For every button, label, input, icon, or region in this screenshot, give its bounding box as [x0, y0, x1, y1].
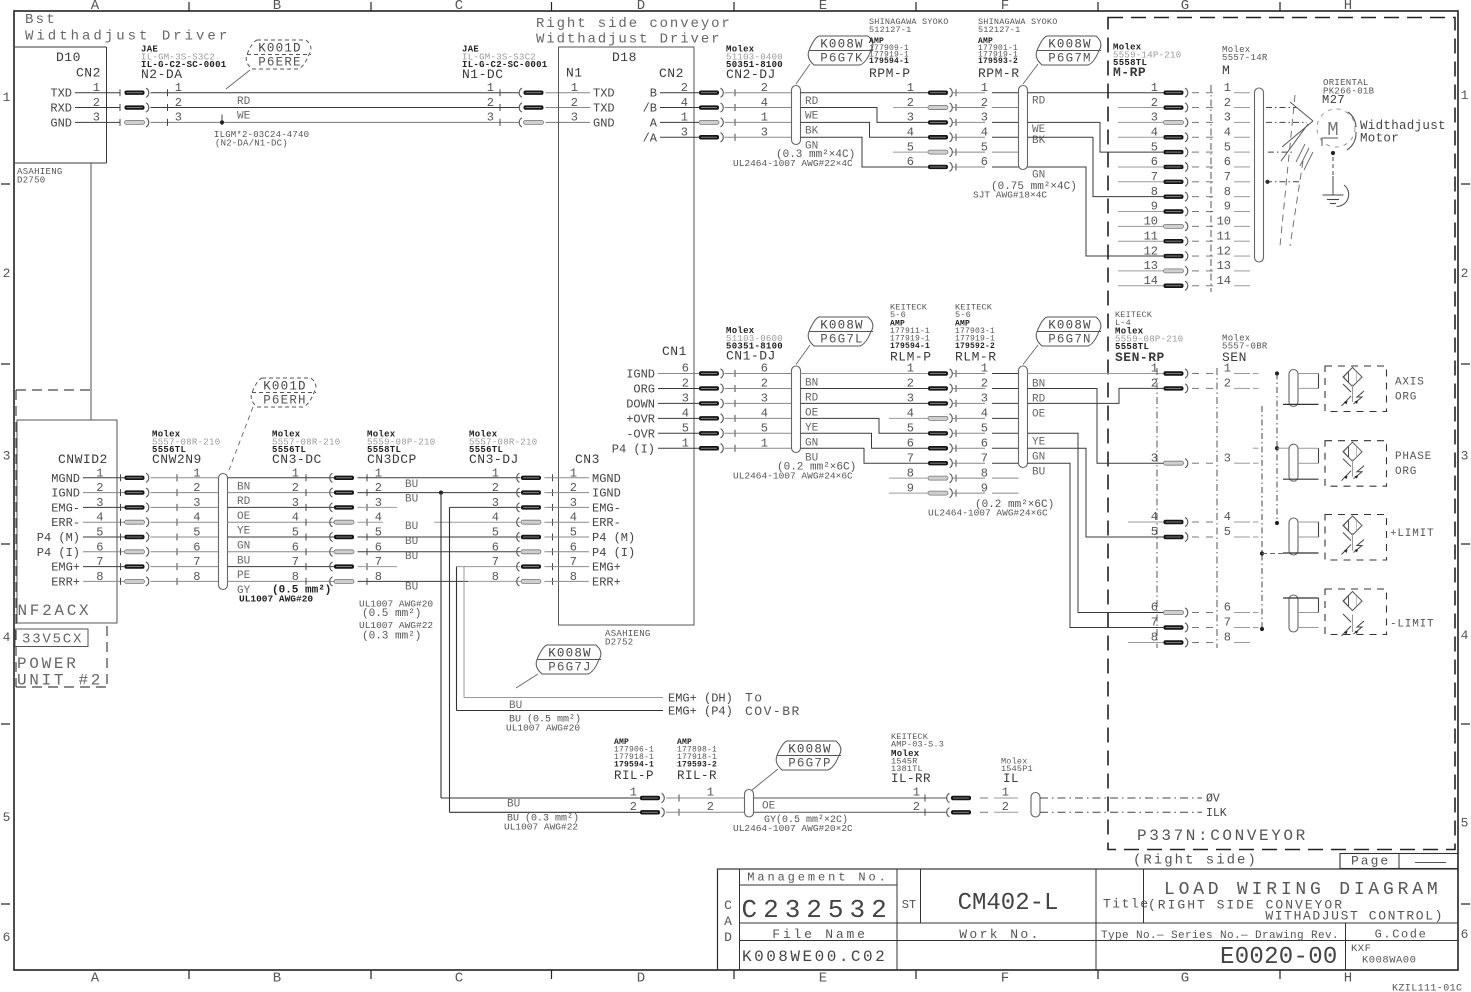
- svg-text:YE: YE: [1032, 437, 1046, 449]
- page cell: [1340, 854, 1458, 869]
- svg-text:File Name: File Name: [772, 927, 867, 942]
- svg-text:4: 4: [682, 407, 689, 421]
- svg-text:POWER: POWER: [17, 655, 79, 673]
- dash-dot leads to 0V ILK: [1040, 793, 1227, 821]
- svg-text:E: E: [819, 971, 827, 987]
- svg-text:CM402-L: CM402-L: [958, 890, 1059, 917]
- svg-text:K008W: K008W: [1048, 319, 1092, 333]
- wires RIL-R to IL-RR: [754, 798, 948, 812]
- wires CNW2N9 to CN3-DC: [228, 474, 338, 585]
- wire colors BN RD OE YE GN BU of cable CN1-DJ to RLM-P: [805, 378, 819, 465]
- svg-text:K001D: K001D: [263, 380, 307, 394]
- connector CN2 of D10 pins TXD RXD GND: [50, 81, 120, 130]
- svg-text:4: 4: [193, 511, 200, 525]
- svg-text:ST: ST: [902, 898, 916, 912]
- svg-text:IGND: IGND: [592, 487, 621, 501]
- splice joints CN2-DJ: [699, 81, 792, 142]
- sensor AXIS ORG: [1253, 366, 1425, 412]
- svg-text:OE: OE: [1032, 409, 1046, 421]
- svg-text:3: 3: [93, 111, 100, 125]
- svg-text:1: 1: [1224, 81, 1231, 95]
- svg-text:BN: BN: [237, 481, 250, 493]
- svg-text:Bst: Bst: [25, 12, 57, 28]
- svg-text:8: 8: [492, 570, 499, 584]
- svg-text:2: 2: [761, 377, 768, 391]
- title Right side conveyor Widthadjust Driver: [536, 16, 732, 48]
- svg-text:1: 1: [571, 81, 578, 95]
- label stack KEITECK AMP RLM-P: [890, 303, 932, 365]
- svg-text:/A: /A: [643, 131, 658, 145]
- svg-text:9: 9: [1224, 200, 1231, 214]
- svg-text:UL1007 AWG#20: UL1007 AWG#20: [506, 723, 580, 734]
- svg-text:ORG: ORG: [633, 382, 655, 396]
- svg-text:Title: Title: [1103, 897, 1150, 912]
- ground symbol of motor: [1323, 151, 1349, 207]
- svg-text:1: 1: [3, 90, 11, 105]
- svg-text:14: 14: [1144, 274, 1158, 288]
- svg-text:6: 6: [96, 540, 103, 554]
- svg-text:4: 4: [761, 96, 768, 110]
- svg-text:AXIS: AXIS: [1395, 377, 1425, 389]
- svg-text:2: 2: [175, 96, 182, 110]
- svg-text:13: 13: [1217, 259, 1231, 273]
- svg-text:2: 2: [1002, 800, 1009, 814]
- svg-text:BN: BN: [805, 378, 818, 390]
- svg-text:1: 1: [761, 111, 768, 125]
- svg-text:G: G: [1181, 0, 1189, 14]
- svg-text:4: 4: [1461, 628, 1469, 643]
- svg-text:5: 5: [1224, 525, 1231, 539]
- connector RIL-R pin numbers: [666, 786, 744, 814]
- svg-text:M27: M27: [1322, 93, 1345, 107]
- svg-text:12: 12: [1144, 244, 1158, 258]
- svg-text:7: 7: [193, 555, 200, 569]
- connector RLM-R pin numbers: [981, 362, 1019, 496]
- svg-text:+OVR: +OVR: [626, 412, 655, 426]
- svg-text:BU: BU: [405, 479, 418, 491]
- label stack Molex CN3-DJ: [469, 430, 537, 468]
- connector SEN-RP 8 pins with splices: [1151, 362, 1213, 647]
- connector CN3DCP pin numbers: [375, 466, 382, 584]
- svg-text:4: 4: [1224, 510, 1231, 524]
- svg-text:3: 3: [907, 111, 914, 125]
- svg-text:EMG+: EMG+: [592, 561, 621, 575]
- svg-text:H: H: [1344, 0, 1352, 14]
- svg-text:5: 5: [3, 810, 11, 825]
- wires RLM-R to SEN-RP: [1028, 374, 1164, 643]
- svg-text:9: 9: [1151, 200, 1158, 214]
- svg-text:2: 2: [981, 96, 988, 110]
- svg-text:P4 (I): P4 (I): [37, 546, 80, 560]
- svg-text:PHASE: PHASE: [1395, 451, 1432, 463]
- svg-text:P4 (I): P4 (I): [612, 442, 655, 456]
- svg-text:-OVR: -OVR: [626, 427, 655, 441]
- svg-text:7: 7: [292, 555, 299, 569]
- svg-text:OE: OE: [762, 801, 776, 813]
- connector SEN 8 pins: [1224, 362, 1250, 645]
- svg-text:2: 2: [707, 800, 714, 814]
- svg-text:+LIMIT: +LIMIT: [1390, 528, 1434, 540]
- svg-text:5: 5: [96, 526, 103, 540]
- svg-text:5: 5: [981, 422, 988, 436]
- svg-text:5-6: 5-6: [955, 310, 971, 320]
- label stack Molex CN2-DJ: [726, 45, 783, 83]
- svg-text:M: M: [1222, 63, 1230, 78]
- label stack Molex M-RP: [1113, 43, 1181, 81]
- svg-text:1: 1: [682, 436, 689, 450]
- svg-text:5: 5: [682, 422, 689, 436]
- svg-text:1: 1: [1224, 362, 1231, 376]
- sensor -LIMIT: [1253, 589, 1434, 636]
- svg-text:IL-RR: IL-RR: [891, 772, 931, 786]
- svg-text:CN1-DJ: CN1-DJ: [726, 349, 776, 364]
- svg-text:4: 4: [96, 511, 103, 525]
- svg-text:(N2-DA/N1-DC): (N2-DA/N1-DC): [215, 139, 288, 149]
- wire EMG+ DH to COV-BR: [464, 691, 764, 713]
- svg-text:COV-BR: COV-BR: [745, 704, 801, 719]
- svg-text:RLM-R: RLM-R: [955, 350, 997, 365]
- svg-text:6: 6: [907, 155, 914, 169]
- svg-text:EMG+ (DH): EMG+ (DH): [668, 692, 733, 706]
- sensor common dash-dot bus: [1260, 371, 1289, 631]
- cable note ILGM*2-03C24-4740 junction: [214, 115, 309, 149]
- svg-text:CN2: CN2: [659, 66, 684, 81]
- splice joints N2-DA: [125, 88, 149, 127]
- svg-text:6: 6: [682, 362, 689, 376]
- svg-text:N1: N1: [566, 66, 583, 81]
- svg-text:1: 1: [292, 466, 299, 480]
- box D10 Bst driver unit: [15, 47, 107, 186]
- connector RPM-R pin numbers: [981, 81, 1019, 169]
- connector RLM-P pin numbers and splices: [907, 362, 985, 498]
- svg-text:2: 2: [681, 81, 688, 95]
- svg-text:3: 3: [1461, 449, 1469, 464]
- svg-text:Right side conveyor: Right side conveyor: [536, 16, 732, 32]
- svg-text:H: H: [1344, 971, 1352, 987]
- svg-text:8: 8: [1151, 185, 1158, 199]
- svg-text:EMG-: EMG-: [51, 501, 80, 515]
- svg-text:BU: BU: [237, 555, 250, 567]
- title Bst Widthadjust Driver: [25, 12, 230, 45]
- svg-text:OE: OE: [237, 511, 251, 523]
- svg-text:179594-1: 179594-1: [869, 57, 909, 66]
- svg-text:CN3: CN3: [575, 452, 600, 467]
- motor M27 widthadjust motor: [1317, 109, 1446, 150]
- svg-text:BU: BU: [405, 536, 418, 548]
- svg-text:A: A: [91, 0, 100, 14]
- svg-text:8: 8: [1224, 631, 1231, 645]
- cable note 0.2mm x6C UL2464 right: [928, 499, 1054, 519]
- svg-text:2: 2: [571, 96, 578, 110]
- svg-text:Widthadjust Driver: Widthadjust Driver: [536, 32, 721, 48]
- wires CN3DCP to CN3-DJ: [358, 478, 521, 582]
- label stack KEITECK AMP RLM-R: [955, 303, 997, 365]
- svg-text:EMG+ (P4): EMG+ (P4): [668, 705, 733, 719]
- wire colors RD WE of cable N2-DA to N1-DC: [237, 96, 251, 123]
- svg-text:3: 3: [761, 392, 768, 406]
- svg-text:2: 2: [570, 481, 577, 495]
- connector housing IL: [1031, 793, 1040, 818]
- cable jacket RIL: [745, 790, 754, 818]
- svg-text:6: 6: [570, 540, 577, 554]
- svg-text:SJT AWG#18×4C: SJT AWG#18×4C: [973, 190, 1047, 201]
- svg-text:M-RP: M-RP: [1113, 65, 1146, 80]
- svg-text:2: 2: [1224, 377, 1231, 391]
- svg-text:P4 (M): P4 (M): [37, 531, 80, 545]
- cable boundary dash-dot line M: [1210, 85, 1212, 292]
- svg-text:6: 6: [1224, 155, 1231, 169]
- wires CN2-DJ to RPM-P: [801, 93, 929, 167]
- svg-text:3: 3: [487, 111, 494, 125]
- svg-text:UL2464-1007 AWG#20×2C: UL2464-1007 AWG#20×2C: [733, 823, 853, 834]
- label stack Molex SEN: [1222, 334, 1268, 366]
- svg-text:6: 6: [1151, 155, 1158, 169]
- label stack Molex M: [1222, 45, 1268, 78]
- connector CN3-DC pin numbers and splices: [292, 466, 367, 586]
- connector CN1 of D18: [612, 344, 699, 456]
- svg-text:7: 7: [96, 555, 103, 569]
- svg-text:4: 4: [981, 407, 988, 421]
- svg-text:AMP-03-S.3: AMP-03-S.3: [891, 740, 944, 750]
- label stack SHINAGAWA AMP RPM-P: [869, 17, 949, 81]
- svg-text:1: 1: [1461, 88, 1469, 103]
- svg-text:D: D: [637, 971, 645, 987]
- svg-text:5: 5: [492, 526, 499, 540]
- svg-text:ORG: ORG: [1395, 392, 1417, 404]
- svg-text:2: 2: [487, 96, 494, 110]
- svg-text:BU: BU: [507, 799, 520, 811]
- svg-text:GND: GND: [50, 116, 72, 130]
- svg-text:OE: OE: [805, 407, 819, 419]
- svg-text:6: 6: [292, 540, 299, 554]
- svg-text:3: 3: [981, 392, 988, 406]
- svg-text:5: 5: [1224, 140, 1231, 154]
- svg-text:1: 1: [761, 436, 768, 450]
- svg-text:1: 1: [175, 81, 182, 95]
- svg-text:5: 5: [292, 526, 299, 540]
- svg-text:1: 1: [907, 81, 914, 95]
- connector IL-RR pin numbers and splices: [913, 786, 988, 817]
- svg-text:7: 7: [1224, 170, 1231, 184]
- svg-text:1: 1: [570, 466, 577, 480]
- splice joints CNW2N9: [125, 466, 219, 586]
- svg-text:4: 4: [907, 125, 914, 139]
- svg-text:179593-2: 179593-2: [978, 57, 1018, 66]
- svg-text:GN: GN: [1032, 452, 1045, 464]
- svg-text:1: 1: [913, 786, 920, 800]
- svg-text:2: 2: [1461, 266, 1469, 281]
- svg-text:KXF: KXF: [1351, 943, 1371, 955]
- svg-text:CN3-DJ: CN3-DJ: [469, 452, 519, 467]
- balloon K008W P6G7J: [516, 645, 601, 688]
- dash-dot leads M to motor: [1265, 108, 1307, 184]
- svg-text:8: 8: [1224, 185, 1231, 199]
- svg-text:C: C: [724, 898, 732, 913]
- svg-text:6: 6: [907, 436, 914, 450]
- svg-text:2: 2: [913, 800, 920, 814]
- svg-text:3: 3: [570, 496, 577, 510]
- svg-text:RPM-R: RPM-R: [978, 66, 1020, 81]
- cable jacket RPM-R: [1019, 86, 1028, 170]
- svg-text:1: 1: [1002, 786, 1009, 800]
- svg-text:Widthadjust Driver: Widthadjust Driver: [25, 29, 230, 45]
- svg-text:7: 7: [570, 555, 577, 569]
- connector N1 of D18 pins TXD TXD GND: [571, 81, 615, 130]
- svg-text:UL2464-1007 AWG#24×6C: UL2464-1007 AWG#24×6C: [733, 471, 853, 482]
- svg-text:(Right side): (Right side): [1133, 853, 1258, 869]
- svg-text:UL2464-1007 AWG#22×4C: UL2464-1007 AWG#22×4C: [733, 158, 853, 169]
- wire colors RD WE BK GN of cable CN2-DJ to RPM-P: [805, 96, 819, 152]
- svg-text:3: 3: [292, 496, 299, 510]
- cable note 0.3mm x4C UL2464: [733, 149, 855, 169]
- svg-text:2: 2: [1224, 96, 1231, 110]
- label stack ORIENTAL PK266-01B M27: [1322, 78, 1375, 107]
- svg-text:5: 5: [907, 422, 914, 436]
- balloon K001D P6ERE: [226, 40, 311, 89]
- svg-text:CNW2N9: CNW2N9: [152, 452, 202, 467]
- label stack SHINAGAWA AMP RPM-R: [978, 17, 1058, 81]
- svg-text:RIL-P: RIL-P: [614, 769, 654, 783]
- wire EMG+ P4 to COV-BR: [457, 704, 801, 734]
- svg-text:7: 7: [981, 451, 988, 465]
- svg-text:2: 2: [3, 266, 11, 281]
- balloon K008W P6G7N: [1023, 317, 1101, 365]
- svg-text:K008WA00: K008WA00: [1362, 955, 1416, 967]
- title block outline: [718, 869, 1459, 970]
- svg-text:F: F: [1001, 0, 1009, 14]
- svg-text:Work No.: Work No.: [959, 927, 1041, 942]
- svg-text:BU: BU: [1032, 467, 1045, 479]
- svg-text:K008W: K008W: [1048, 38, 1092, 52]
- cable note 0.2mm x6C UL2464 left: [733, 462, 856, 482]
- svg-text:6: 6: [981, 436, 988, 450]
- svg-text:RPM-P: RPM-P: [869, 66, 911, 81]
- svg-text:6: 6: [1224, 601, 1231, 615]
- label stack AMP RIL-R: [677, 738, 717, 783]
- svg-text:3: 3: [907, 392, 914, 406]
- svg-text:UL1007 AWG#22: UL1007 AWG#22: [504, 822, 578, 833]
- svg-text:CN3-DC: CN3-DC: [272, 452, 322, 467]
- svg-text:B: B: [650, 87, 657, 101]
- svg-text:1: 1: [907, 362, 914, 376]
- svg-text:8: 8: [570, 570, 577, 584]
- svg-text:-LIMIT: -LIMIT: [1390, 619, 1434, 631]
- svg-text:3: 3: [981, 111, 988, 125]
- svg-text:8: 8: [292, 570, 299, 584]
- svg-text:G: G: [1181, 971, 1189, 987]
- svg-text:ERR+: ERR+: [51, 575, 80, 589]
- svg-text:2: 2: [630, 800, 637, 814]
- svg-text:UNIT #2: UNIT #2: [17, 672, 103, 690]
- svg-text:P6ERH: P6ERH: [263, 394, 307, 408]
- svg-text:A: A: [724, 914, 732, 929]
- svg-text:P6G7N: P6G7N: [1048, 333, 1092, 347]
- svg-text:YE: YE: [805, 422, 819, 434]
- svg-text:3: 3: [96, 496, 103, 510]
- svg-text:ERR-: ERR-: [592, 516, 621, 530]
- balloon K008W P6G7K: [796, 36, 873, 84]
- svg-text:K008WE00.C02: K008WE00.C02: [742, 948, 887, 966]
- title block file name row: [772, 927, 1427, 942]
- svg-text:TXD: TXD: [50, 87, 72, 101]
- svg-text:1: 1: [93, 81, 100, 95]
- svg-text:4: 4: [907, 407, 914, 421]
- connector CN2 of D18 pins B /B A /A: [643, 81, 699, 145]
- label stack JAE N2-DA: [141, 45, 227, 83]
- svg-text:N1-DC: N1-DC: [462, 67, 504, 82]
- svg-text:2: 2: [907, 377, 914, 391]
- label stack JAE N1-DC: [462, 45, 548, 83]
- svg-text:6: 6: [492, 540, 499, 554]
- svg-text:E: E: [819, 0, 827, 14]
- dashed enclosure POWER UNIT #2: [16, 390, 107, 690]
- svg-text:YE: YE: [237, 526, 251, 538]
- svg-text:CNWID2: CNWID2: [58, 452, 108, 467]
- svg-text:WITHADJUST CONTROL): WITHADJUST CONTROL): [1265, 909, 1444, 924]
- svg-text:2: 2: [96, 481, 103, 495]
- svg-text:P6ERE: P6ERE: [258, 56, 302, 70]
- svg-text:WE: WE: [237, 111, 251, 123]
- svg-text:D10: D10: [56, 50, 81, 65]
- motor lead arrow and hatch: [1280, 95, 1313, 246]
- svg-text:8: 8: [193, 570, 200, 584]
- connector CN3 of D18 pins: [570, 452, 635, 589]
- connector N2-DA pin numbers: [151, 81, 520, 126]
- cable notes UL1007 mid: [359, 599, 433, 643]
- svg-text:K008W: K008W: [788, 743, 832, 757]
- svg-text:3: 3: [1151, 111, 1158, 125]
- svg-text:TXD: TXD: [593, 87, 615, 101]
- svg-text:CN2-DJ: CN2-DJ: [726, 67, 776, 82]
- connector RPM-P pin numbers and splices: [907, 81, 985, 172]
- svg-text:UL2464-1007 AWG#24×6C: UL2464-1007 AWG#24×6C: [928, 508, 1048, 519]
- svg-text:G.Code: G.Code: [1375, 928, 1428, 942]
- svg-text:5: 5: [907, 140, 914, 154]
- svg-text:7: 7: [907, 451, 914, 465]
- svg-text:7: 7: [1224, 616, 1231, 630]
- svg-text:3: 3: [1224, 111, 1231, 125]
- svg-text:4: 4: [492, 511, 499, 525]
- svg-text:2: 2: [907, 96, 914, 110]
- wire colors RD WE BK GN of cable RPM-R to M-RP: [1032, 96, 1046, 182]
- svg-text:K008W: K008W: [820, 319, 864, 333]
- svg-text:K001D: K001D: [258, 42, 302, 56]
- svg-text:P6G7M: P6G7M: [1048, 52, 1092, 66]
- svg-text:A: A: [91, 971, 100, 987]
- svg-text:IGND: IGND: [51, 487, 80, 501]
- svg-text:7: 7: [1151, 170, 1158, 184]
- svg-text:1: 1: [492, 466, 499, 480]
- svg-text:3: 3: [1224, 451, 1231, 465]
- wire colors BU of cable CN3DCP to CN3-DJ: [405, 479, 418, 594]
- svg-text:5: 5: [1461, 816, 1469, 831]
- wires CN1-DJ to RLM-P: [801, 374, 929, 494]
- svg-text:8: 8: [907, 466, 914, 480]
- svg-text:6: 6: [3, 930, 11, 945]
- title block ST CM402-L: [902, 890, 1059, 917]
- label stack Molex IL: [1001, 757, 1033, 787]
- svg-text:RD: RD: [1032, 96, 1046, 108]
- wire colors BN RD OE YE GN BU PE GY of cable CNW2N9: [237, 481, 251, 597]
- label stack Molex CN3-DC: [272, 430, 340, 468]
- svg-text:9: 9: [981, 481, 988, 495]
- svg-text:9: 9: [907, 481, 914, 495]
- svg-text:D: D: [724, 930, 732, 945]
- svg-text:CN1: CN1: [662, 344, 687, 359]
- svg-text:6: 6: [981, 155, 988, 169]
- svg-text:DOWN: DOWN: [626, 397, 655, 411]
- svg-text:3: 3: [492, 496, 499, 510]
